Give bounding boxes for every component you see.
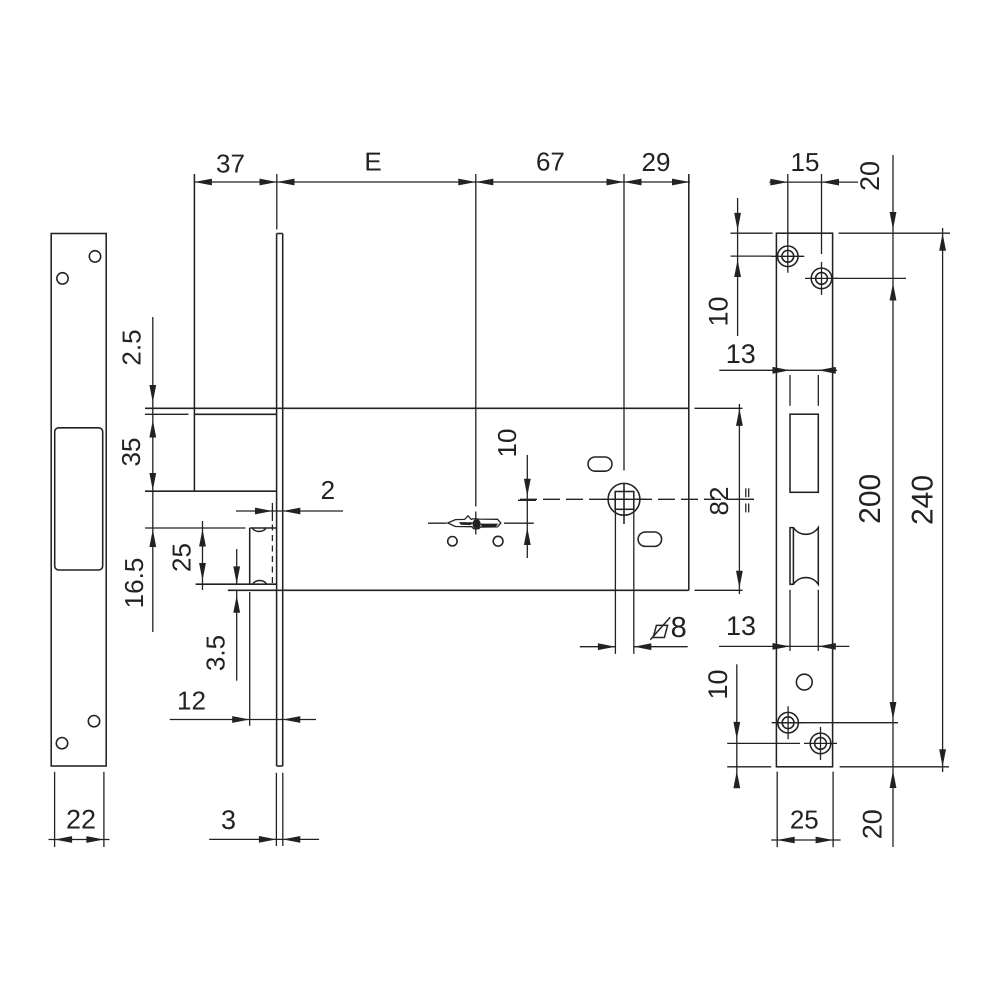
svg-text:67: 67 (536, 147, 565, 177)
svg-text:22: 22 (66, 805, 96, 835)
right plate screw hole top right (805, 262, 838, 295)
dimension 2.5 / 35 / 16.5 stack line (149, 317, 156, 632)
dimension 12 (170, 592, 316, 726)
follower axis extension line (623, 174, 625, 471)
dimension 10 bottom (727, 664, 800, 788)
dimension 13 bottom (719, 590, 849, 651)
svg-text:82: 82 (704, 487, 734, 516)
right plate screw hole bottom left (772, 706, 805, 739)
left faceplate screw hole top left (57, 273, 68, 284)
keyhole pin circle right (493, 536, 503, 546)
latch bolt hidden face (dashed) (271, 503, 273, 584)
right plate outline (776, 233, 832, 767)
dimension 10 top (731, 198, 772, 336)
faceplate edge top cap (277, 233, 283, 235)
dimension 3.5 (233, 549, 240, 681)
follower square 8mm (615, 492, 634, 510)
left faceplate screw hole top right (89, 251, 100, 262)
svg-text:10: 10 (703, 669, 733, 699)
left faceplate slot (55, 428, 103, 570)
svg-text:10: 10 (492, 429, 522, 458)
latch bolt top edge (145, 527, 277, 529)
svg-text:E: E (364, 146, 381, 176)
svg-text:2: 2 (321, 475, 335, 505)
equal symmetry symbol (736, 488, 754, 512)
latch bolt bottom bevel arc (253, 581, 267, 585)
oval slot upper (588, 457, 612, 471)
keyhole pin circle left (448, 537, 457, 546)
dimension 25 (199, 521, 206, 590)
keyhole centerline ticks (428, 522, 534, 524)
faceplate edge bottom cap (277, 765, 283, 767)
faceplate edge view left line (276, 234, 278, 767)
upper deadbolt bottom edge (145, 490, 276, 492)
latch bolt left edge (249, 528, 251, 584)
svg-text:12: 12 (177, 685, 206, 715)
horizontal centerline (dashed) (520, 498, 754, 500)
svg-text:29: 29 (642, 147, 671, 177)
faceplate edge view right line (282, 234, 284, 767)
top dimension line (194, 174, 690, 230)
upper deadbolt left edge / 37 extension (193, 174, 195, 491)
svg-text:10: 10 (704, 296, 734, 326)
follower circle (608, 483, 640, 515)
svg-text:3.5: 3.5 (201, 635, 231, 671)
dimension 10 keyhole (518, 455, 536, 558)
right plate latch opening (790, 528, 818, 585)
svg-text:16.5: 16.5 (119, 558, 149, 609)
right plate plain hole (796, 674, 812, 690)
dimension 20/200/20 shared line (777, 155, 906, 847)
plate top extension lines (731, 232, 951, 234)
svg-text:15: 15 (791, 147, 820, 177)
dimension diameter 8 (580, 509, 688, 654)
svg-text:13: 13 (726, 339, 756, 369)
label diameter 8 (650, 612, 686, 644)
upper deadbolt top edge (145, 413, 277, 415)
dimension 15 (769, 174, 858, 254)
left faceplate screw hole bottom left (56, 738, 67, 749)
lock body top edge (145, 407, 689, 409)
svg-text:240: 240 (907, 475, 940, 525)
right plate screw hole bottom right (804, 727, 837, 760)
cylinder axis extension line (475, 174, 477, 535)
svg-text:37: 37 (216, 148, 245, 178)
svg-text:3: 3 (221, 805, 236, 835)
svg-text:20: 20 (858, 809, 888, 839)
left faceplate outline (51, 234, 106, 767)
dimension 25 right (771, 772, 841, 848)
oval slot lower (638, 532, 662, 546)
svg-text:200: 200 (854, 474, 887, 524)
double-bit keyhole (448, 516, 501, 529)
svg-text:20: 20 (855, 161, 885, 191)
lock body bottom edge (228, 589, 689, 591)
lock body right edge (688, 174, 690, 590)
right plate screw hole top left (771, 240, 804, 273)
latch bolt bottom edge (196, 583, 277, 585)
latch bolt top bevel arc (252, 528, 266, 531)
left faceplate screw hole bottom right (88, 716, 99, 727)
svg-text:25: 25 (790, 805, 819, 835)
follower vertical crosshair (623, 484, 625, 525)
svg-text:25: 25 (166, 543, 196, 572)
dimension 13 top (719, 367, 837, 406)
dimension 82 (695, 404, 743, 594)
svg-text:13: 13 (726, 611, 756, 641)
dimension 240 (840, 228, 949, 772)
dimension 22 (49, 772, 110, 847)
right plate deadbolt slot (790, 414, 818, 492)
dimension 2 (236, 508, 343, 515)
dimension 3 (209, 773, 319, 846)
svg-text:2.5: 2.5 (117, 329, 147, 365)
svg-text:8: 8 (671, 612, 687, 644)
svg-text:35: 35 (116, 438, 146, 467)
